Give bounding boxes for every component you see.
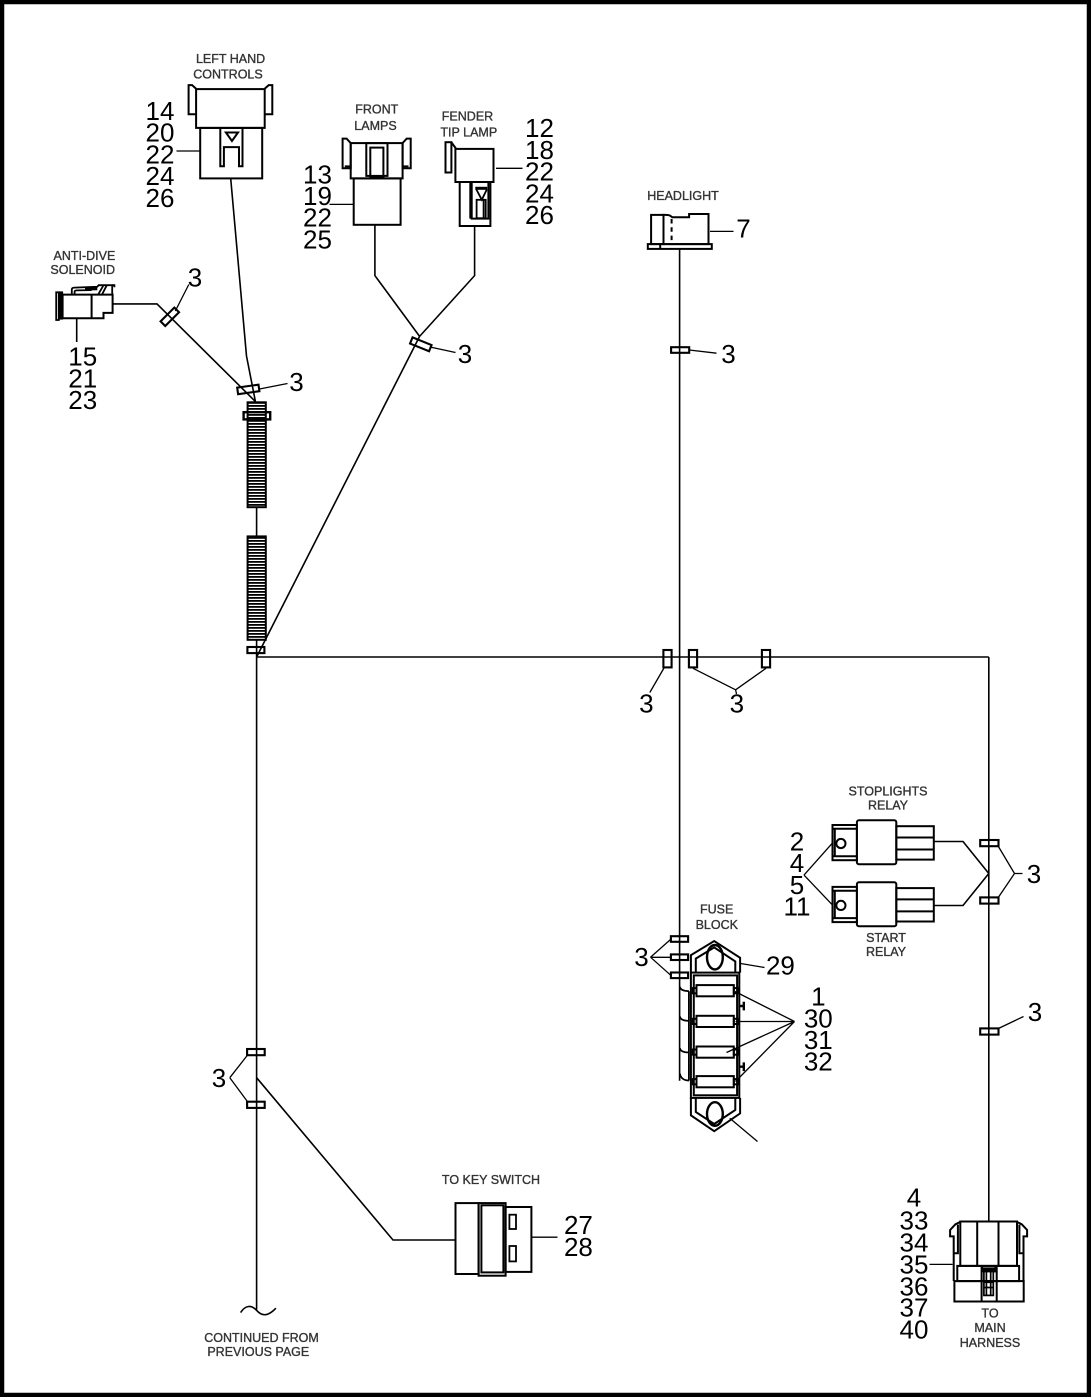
svg-text:FRONT: FRONT (355, 103, 398, 117)
svg-text:3: 3 (458, 339, 472, 369)
svg-text:3: 3 (639, 688, 653, 718)
svg-text:11: 11 (784, 891, 811, 921)
svg-text:LEFT HAND: LEFT HAND (196, 52, 265, 66)
svg-text:START: START (866, 931, 906, 945)
svg-text:SOLENOID: SOLENOID (50, 263, 115, 277)
svg-text:RELAY: RELAY (866, 945, 907, 959)
svg-text:3: 3 (1027, 859, 1041, 889)
svg-text:BLOCK: BLOCK (696, 918, 739, 932)
svg-text:CONTROLS: CONTROLS (193, 67, 262, 81)
svg-text:3: 3 (289, 367, 303, 397)
svg-text:TO KEY SWITCH: TO KEY SWITCH (442, 1173, 540, 1187)
svg-text:TO: TO (981, 1307, 998, 1321)
svg-text:TIP LAMP: TIP LAMP (440, 125, 497, 139)
svg-text:FENDER: FENDER (442, 110, 493, 124)
svg-text:HARNESS: HARNESS (960, 1336, 1020, 1350)
svg-text:23: 23 (68, 385, 97, 415)
svg-text:28: 28 (564, 1232, 593, 1262)
svg-text:3: 3 (212, 1063, 226, 1093)
svg-text:3: 3 (721, 339, 735, 369)
svg-text:26: 26 (146, 183, 175, 213)
svg-text:3: 3 (730, 688, 744, 718)
svg-text:40: 40 (900, 1314, 929, 1344)
svg-text:25: 25 (303, 224, 332, 254)
svg-text:3: 3 (634, 942, 648, 972)
svg-text:MAIN: MAIN (974, 1321, 1005, 1335)
svg-text:HEADLIGHT: HEADLIGHT (647, 189, 719, 203)
svg-text:ANTI-DIVE: ANTI-DIVE (53, 249, 115, 263)
svg-text:RELAY: RELAY (868, 799, 909, 813)
svg-text:FUSE: FUSE (700, 903, 733, 917)
svg-text:29: 29 (766, 950, 795, 980)
svg-text:26: 26 (525, 200, 554, 230)
svg-text:CONTINUED FROM: CONTINUED FROM (204, 1331, 319, 1345)
svg-text:7: 7 (736, 214, 750, 244)
svg-text:PREVIOUS PAGE: PREVIOUS PAGE (207, 1345, 309, 1359)
svg-text:3: 3 (1028, 997, 1042, 1027)
svg-text:STOPLIGHTS: STOPLIGHTS (849, 785, 928, 799)
svg-text:LAMPS: LAMPS (354, 119, 396, 133)
svg-text:3: 3 (188, 263, 202, 293)
svg-text:32: 32 (804, 1047, 833, 1077)
